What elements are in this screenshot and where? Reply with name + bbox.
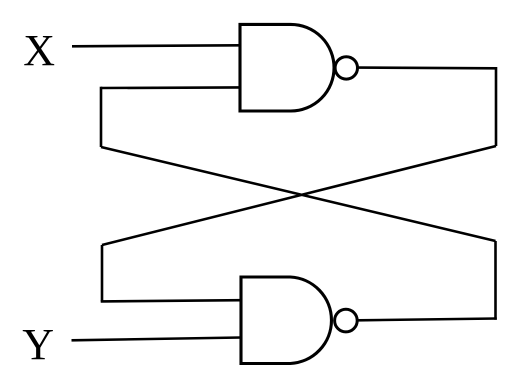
wire: right rail down to U2 output net bbox=[494, 241, 497, 320]
svg-text:X: X bbox=[23, 26, 55, 75]
NAND gate U2 (bottom) body bbox=[241, 277, 331, 364]
wire: X input to U1 pin 1 bbox=[72, 45, 240, 46]
wire: node B vertical segment bbox=[101, 245, 104, 301]
wire: crossing diagonal from node A to right rail bbox=[101, 147, 496, 241]
wire: right rail down from U1 output bbox=[495, 67, 498, 146]
svg-text:Y: Y bbox=[22, 320, 54, 369]
NAND gate U1 output bubble bbox=[335, 57, 357, 79]
wire: U2 output bubble to right rail bbox=[358, 319, 497, 321]
wire: crossing diagonal from U1 output rail to node B bbox=[102, 146, 496, 245]
NAND gate U2 output bubble bbox=[335, 309, 358, 332]
wire: U1 output bubble to right rail bbox=[359, 66, 497, 69]
wire: U1 pin 2 stub from node A bbox=[101, 86, 240, 89]
NAND gate U1 (top) body bbox=[240, 24, 334, 111]
wire: Y input to U2 pin 2 bbox=[72, 338, 242, 341]
wire: node A vertical segment bbox=[100, 87, 103, 147]
wire: node B to U2 pin 1 bbox=[101, 300, 241, 301]
